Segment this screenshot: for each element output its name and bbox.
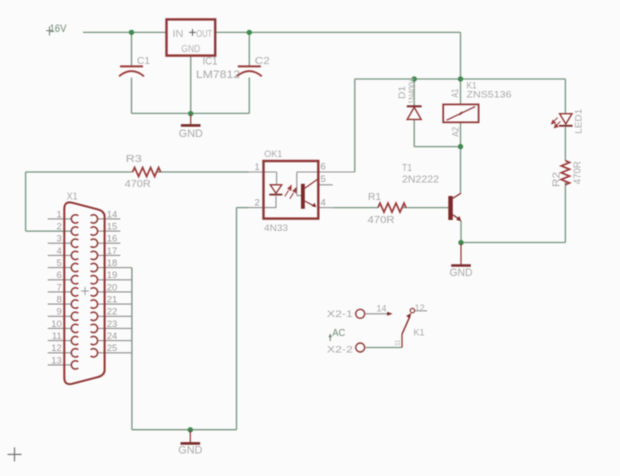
svg-text:1N4004: 1N4004 [408,77,417,104]
svg-text:23: 23 [107,319,118,330]
svg-text:K1: K1 [414,328,425,339]
svg-text:7: 7 [57,282,62,293]
svg-text:OK1: OK1 [264,149,282,160]
svg-text:470R: 470R [368,215,395,226]
svg-text:X2-1: X2-1 [327,309,353,320]
svg-text:470R: 470R [125,179,151,190]
svg-text:GND: GND [178,445,202,457]
svg-text:12: 12 [415,303,425,314]
svg-text:5: 5 [321,174,326,185]
svg-text:1: 1 [57,209,62,220]
svg-text:14: 14 [107,209,118,220]
svg-text:GND: GND [181,43,200,55]
svg-text:4N33: 4N33 [264,223,288,234]
svg-text:AC: AC [332,328,345,339]
svg-text:12: 12 [51,343,62,354]
svg-text:25: 25 [107,343,118,354]
svg-text:R2: R2 [552,172,563,187]
svg-text:X2-2: X2-2 [327,344,353,355]
svg-text:16: 16 [107,234,118,245]
svg-text:19: 19 [107,270,118,281]
svg-text:4: 4 [321,198,326,209]
svg-text:X1: X1 [67,191,78,202]
svg-text:16V: 16V [50,23,68,35]
svg-text:T1: T1 [402,163,412,174]
svg-text:GND: GND [179,128,203,140]
svg-text:GND: GND [450,267,473,279]
svg-text:22: 22 [107,307,118,318]
svg-text:4: 4 [57,246,62,257]
svg-text:470R: 470R [573,161,584,184]
svg-text:LED1: LED1 [574,109,585,134]
svg-text:14: 14 [377,303,387,314]
svg-text:2N2222: 2N2222 [402,175,439,186]
svg-text:20: 20 [107,282,118,293]
svg-text:21: 21 [107,294,118,305]
svg-text:11: 11 [394,339,401,345]
svg-text:15: 15 [107,221,118,232]
svg-text:5: 5 [57,258,62,269]
svg-text:2: 2 [255,198,260,209]
svg-text:10: 10 [51,319,62,330]
svg-text:IN: IN [173,28,184,40]
svg-text:24: 24 [107,331,118,342]
svg-text:LM7812: LM7812 [196,69,240,81]
svg-text:R1: R1 [368,192,381,203]
svg-text:6: 6 [321,162,326,173]
svg-text:8: 8 [57,294,62,305]
svg-text:C1: C1 [137,55,150,67]
svg-text:17: 17 [107,246,118,257]
svg-text:1: 1 [255,162,260,173]
svg-text:IC1: IC1 [203,56,218,68]
svg-text:3: 3 [57,234,62,245]
svg-text:6: 6 [57,270,62,281]
svg-text:D1: D1 [397,86,408,99]
svg-text:2: 2 [57,221,62,232]
svg-text:A1: A1 [450,89,460,98]
svg-text:C2: C2 [255,55,270,67]
svg-text:A2: A2 [450,127,460,137]
svg-text:13: 13 [51,355,62,366]
svg-text:ZNS5136: ZNS5136 [467,90,512,100]
svg-text:9: 9 [57,307,62,318]
svg-text:18: 18 [107,258,118,269]
svg-text:OUT: OUT [196,28,212,40]
svg-text:11: 11 [52,331,62,342]
svg-text:R3: R3 [126,154,143,165]
